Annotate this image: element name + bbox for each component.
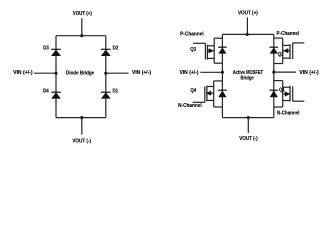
svg-text:N-Channel: N-Channel	[277, 111, 300, 117]
svg-text:VOUT (+): VOUT (+)	[238, 10, 258, 16]
junction bottom (diode bridge)	[80, 116, 83, 119]
wire VIN right (MOSFET bridge)	[274, 71, 296, 73]
svg-text:N-Channel: N-Channel	[178, 103, 202, 109]
diode body diode of Q1	[270, 90, 279, 97]
junction top (MOSFET bridge)	[246, 33, 249, 36]
svg-text:P-Channel: P-Channel	[277, 31, 300, 37]
wire VIN left (MOSFET bridge)	[200, 71, 222, 73]
svg-text:VIN (+/-): VIN (+/-)	[13, 70, 33, 76]
junction mid-right (MOSFET bridge)	[272, 71, 275, 74]
svg-text:Q1: Q1	[279, 88, 285, 94]
svg-text:VIN (+/-): VIN (+/-)	[132, 70, 151, 76]
svg-text:Q3: Q3	[190, 47, 196, 53]
svg-text:D2: D2	[113, 45, 119, 51]
svg-text:Q4: Q4	[190, 88, 196, 94]
wire Q2 source to branch	[274, 63, 283, 65]
transistor Q4	[193, 81, 214, 107]
diode body diode of Q4	[218, 90, 227, 97]
wire top rail (MOSFET bridge)	[222, 33, 273, 35]
junction bottom (MOSFET bridge)	[247, 116, 250, 119]
svg-text:D4: D4	[43, 89, 49, 95]
transistor Q2	[283, 38, 305, 63]
svg-text:D1: D1	[113, 89, 119, 95]
wire Q3 source to branch	[214, 62, 222, 64]
wire VIN right (diode bridge)	[106, 72, 129, 74]
wire left side (diode bridge)	[55, 36, 57, 118]
svg-text:VIN (+/-): VIN (+/-)	[179, 70, 198, 76]
junction mid-left (MOSFET bridge)	[221, 71, 224, 74]
svg-text:VOUT (-): VOUT (-)	[72, 138, 91, 144]
wire Q3 drain to branch	[214, 37, 222, 39]
wire VOUT(-) lead (MOSFET bridge)	[247, 118, 249, 133]
diode D1	[101, 92, 111, 98]
wire top rail (diode bridge)	[56, 35, 106, 37]
junction top (diode bridge)	[80, 34, 83, 37]
diode body diode of Q2	[270, 47, 279, 53]
svg-text:Bridge: Bridge	[241, 76, 254, 82]
svg-text:Diode Bridge: Diode Bridge	[66, 71, 94, 77]
wire VOUT(+) lead (diode bridge)	[81, 18, 83, 35]
svg-text:VOUT (+): VOUT (+)	[73, 11, 92, 17]
junction mid-left (diode bridge)	[54, 72, 57, 75]
wire Q4 source to branch	[214, 106, 223, 108]
wire Q1 drain to branch	[274, 80, 283, 82]
wire Q2 drain to branch	[274, 37, 283, 39]
wire right branch (MOSFET bridge)	[273, 34, 275, 117]
wire bottom rail (MOSFET bridge)	[222, 117, 273, 119]
wire left branch (MOSFET bridge)	[221, 34, 223, 117]
wire Q1 source to branch	[274, 106, 283, 108]
wire right side (diode bridge)	[105, 36, 107, 118]
diode D4	[51, 92, 61, 98]
diode body diode of Q3	[218, 47, 227, 53]
wire Q4 drain to branch	[214, 80, 223, 82]
svg-text:P-Channel: P-Channel	[180, 32, 204, 38]
wire VIN left (diode bridge)	[34, 72, 56, 74]
svg-text:D3: D3	[43, 45, 49, 51]
junction mid-right (diode bridge)	[104, 72, 107, 75]
transistor Q3	[193, 38, 214, 63]
diode D2	[101, 49, 111, 55]
svg-text:VOUT (-): VOUT (-)	[239, 136, 258, 142]
transistor Q1	[283, 81, 305, 107]
svg-text:Q2: Q2	[278, 52, 284, 58]
wire bottom rail (diode bridge)	[56, 117, 106, 119]
wire VOUT(+) lead (MOSFET bridge)	[246, 17, 248, 34]
svg-text:VIN (+/-): VIN (+/-)	[299, 70, 319, 76]
wire VOUT(-) lead (diode bridge)	[81, 118, 83, 135]
diode D3	[51, 49, 61, 55]
